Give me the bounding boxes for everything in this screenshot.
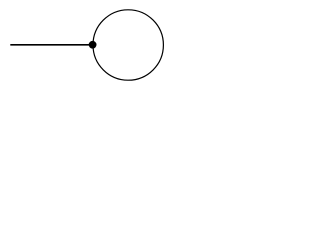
loop (circle element)	[93, 10, 163, 80]
wire	[10, 44, 93, 46]
node (junction dot)	[89, 41, 97, 49]
